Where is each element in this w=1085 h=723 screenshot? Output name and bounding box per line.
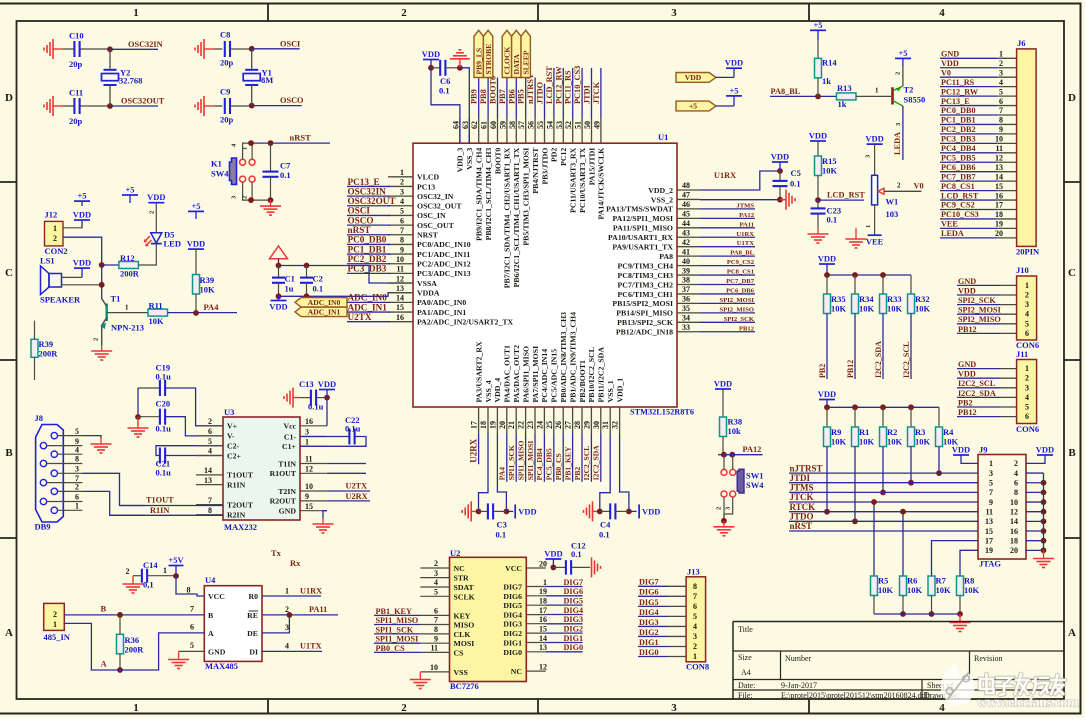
- svg-text:6: 6: [999, 97, 1003, 106]
- svg-text:C3: C3: [497, 520, 507, 530]
- wire DB9 pin3 to MAX232: [82, 473, 145, 505]
- svg-text:VDD: VDD: [725, 58, 743, 68]
- U3 pin 5 C2-: [196, 445, 223, 447]
- svg-text:DE: DE: [247, 629, 258, 638]
- svg-text:PB10/I2C2_SCL: PB10/I2C2_SCL: [587, 347, 596, 402]
- J13 pin 1 DIG0: [638, 656, 668, 658]
- wire R13 to T2 base: [856, 95, 891, 97]
- svg-text:I2C2_SDA: I2C2_SDA: [874, 341, 883, 378]
- wire to pin 63: [460, 68, 469, 143]
- svg-text:SPI2_MOSI: SPI2_MOSI: [958, 306, 1001, 315]
- wires ADC ports to pins 14 15: [347, 301, 390, 303]
- DB9 pin 9: [40, 442, 46, 448]
- svg-text:11: 11: [305, 455, 313, 464]
- J6 pin 18 PC10_CS3: [940, 218, 998, 220]
- svg-text:C1+: C1+: [282, 442, 297, 451]
- svg-text:A: A: [208, 629, 214, 638]
- svg-text:VDD: VDD: [147, 192, 165, 202]
- svg-text:C10: C10: [69, 31, 84, 41]
- svg-text:DIG1: DIG1: [503, 639, 522, 648]
- U2 pin 19 DIG6: [526, 595, 546, 597]
- svg-text:LEDA: LEDA: [893, 132, 902, 155]
- zone tick marks: [267, 4, 269, 22]
- speaker wires: [62, 276, 83, 278]
- svg-text:3: 3: [400, 187, 404, 196]
- svg-text:OSC32_OUT: OSC32_OUT: [417, 202, 462, 211]
- svg-text:DIG7: DIG7: [639, 578, 659, 587]
- svg-text:11: 11: [985, 508, 993, 517]
- svg-text:VDD: VDD: [544, 549, 562, 559]
- svg-text:57: 57: [517, 121, 526, 129]
- svg-text:DIG0: DIG0: [503, 648, 522, 657]
- svg-text:6: 6: [75, 493, 79, 502]
- svg-text:D: D: [1068, 92, 1076, 104]
- svg-text:42: 42: [682, 238, 690, 247]
- svg-text:DIG2: DIG2: [639, 628, 659, 637]
- svg-text:23: 23: [526, 421, 535, 429]
- svg-text:VSS_3: VSS_3: [465, 148, 474, 170]
- power VDD left of J9: [953, 454, 969, 456]
- svg-text:JTCK: JTCK: [592, 81, 601, 104]
- resistor R9 10K: [826, 407, 828, 427]
- svg-text:PC12_RW: PC12_RW: [554, 66, 563, 104]
- svg-text:VSSA: VSSA: [417, 279, 437, 288]
- svg-text:PA13/TMS/SWDAT: PA13/TMS/SWDAT: [606, 205, 674, 214]
- svg-text:PB9/I2C1_SDA/TIM4_CH4: PB9/I2C1_SDA/TIM4_CH4: [475, 148, 484, 241]
- capacitor C9: [224, 98, 226, 114]
- svg-text:CON8: CON8: [686, 662, 709, 672]
- svg-text:20PIN: 20PIN: [1016, 247, 1040, 257]
- J11 pin 6 PB12: [957, 416, 1000, 418]
- svg-text:PC10/USART3_TX: PC10/USART3_TX: [578, 147, 587, 213]
- net nRST wire: [251, 142, 330, 144]
- svg-text:2: 2: [693, 642, 697, 651]
- svg-text:A: A: [5, 627, 13, 639]
- svg-text:6: 6: [434, 607, 438, 616]
- svg-text:4: 4: [285, 642, 289, 651]
- svg-text:R1: R1: [859, 427, 869, 437]
- svg-text:STM32L152R8T6: STM32L152R8T6: [630, 408, 694, 417]
- svg-text:61: 61: [480, 121, 489, 129]
- DB9 pin 1: [51, 507, 57, 513]
- svg-text:2: 2: [53, 610, 57, 619]
- wire J12 pin2 down to transistor: [63, 237, 102, 299]
- svg-text:PC9_CS2: PC9_CS2: [941, 201, 975, 210]
- svg-text:15: 15: [985, 527, 993, 536]
- svg-text:45: 45: [682, 210, 690, 219]
- svg-text:VDD: VDD: [73, 210, 91, 220]
- J10 pin 2 VDD: [957, 294, 1000, 296]
- svg-text:+5: +5: [898, 48, 907, 58]
- svg-text:ADC_IN0: ADC_IN0: [348, 293, 388, 303]
- svg-text:RTCK: RTCK: [790, 502, 816, 512]
- svg-text:CLK: CLK: [454, 630, 471, 639]
- power VDD at J12: [74, 219, 90, 221]
- svg-text:3: 3: [285, 623, 289, 632]
- svg-text:+5: +5: [125, 185, 134, 195]
- U3 pin 7 T2OUT: [196, 504, 223, 506]
- svg-text:20: 20: [1010, 546, 1018, 555]
- svg-text:PA8_BL: PA8_BL: [730, 250, 754, 257]
- svg-text:R2IN: R2IN: [227, 511, 246, 520]
- pin4 wire: [165, 455, 223, 457]
- power VDD above LED: [148, 202, 164, 204]
- svg-text:14: 14: [539, 634, 547, 643]
- top bus wire: [279, 266, 412, 284]
- svg-text:R6: R6: [907, 576, 917, 586]
- op-amp U1 body STM32L152R8T6: [413, 143, 677, 407]
- J11 pin 4 I2C2_SDA: [957, 396, 1000, 398]
- svg-text:R9: R9: [831, 427, 841, 437]
- switch K1 SW4: [230, 158, 237, 185]
- svg-text:C14: C14: [143, 560, 158, 570]
- svg-text:0.1: 0.1: [827, 215, 838, 225]
- port ADC_IN1: [295, 307, 347, 316]
- J6 pin 11 PC4_DB4: [940, 152, 998, 154]
- J11 pin 5 PB2: [957, 406, 1000, 408]
- DB9 pin 2: [51, 488, 57, 494]
- svg-text:7: 7: [999, 106, 1003, 115]
- svg-text:10K: 10K: [887, 437, 903, 447]
- svg-text:R15: R15: [822, 156, 837, 166]
- wire: [63, 105, 74, 107]
- svg-text:2: 2: [1025, 374, 1029, 383]
- svg-text:0.1: 0.1: [599, 530, 610, 540]
- potentiometer W1 103: [872, 175, 878, 205]
- power VDD above R38: [715, 388, 731, 390]
- svg-text:PC4_DB4: PC4_DB4: [941, 144, 976, 153]
- svg-text:JTMS: JTMS: [736, 202, 754, 209]
- svg-text:37: 37: [682, 285, 690, 294]
- svg-text:DB9: DB9: [35, 522, 51, 532]
- svg-text:12: 12: [1010, 508, 1018, 517]
- svg-text:9-Jan-2017: 9-Jan-2017: [781, 681, 817, 690]
- svg-text:10k: 10k: [728, 426, 742, 436]
- U2 pin 7 MISO: [420, 624, 449, 626]
- VDD C12 at U2 VCC: [551, 565, 557, 571]
- svg-text:46: 46: [682, 200, 690, 209]
- svg-text:C13: C13: [299, 379, 314, 389]
- svg-text:1: 1: [400, 168, 404, 177]
- capacitor C12 0.1: [553, 566, 566, 568]
- power VDD above R9 group: [819, 399, 835, 401]
- svg-text:SW4: SW4: [211, 169, 229, 179]
- ground at U3 GND: [323, 511, 327, 518]
- svg-text:PC13_E: PC13_E: [348, 177, 380, 187]
- svg-text:VCC: VCC: [208, 592, 225, 601]
- node OSC32IN: [107, 46, 113, 52]
- svg-text:PA3/USART2_RX: PA3/USART2_RX: [474, 341, 483, 402]
- ground below J9: [1043, 550, 1045, 554]
- ground left of C13: [292, 388, 294, 408]
- svg-text:VDD: VDD: [865, 134, 883, 144]
- svg-text:PB7/I2C1_SDA/TIM4_CH2/USART1_R: PB7/I2C1_SDA/TIM4_CH2/USART1_RX: [503, 147, 512, 288]
- svg-text:6: 6: [1025, 412, 1029, 421]
- wires switch bottom: [243, 182, 271, 200]
- svg-text:R1IN: R1IN: [227, 480, 246, 489]
- svg-text:PB7: PB7: [498, 89, 507, 104]
- svg-text:20p: 20p: [69, 116, 83, 126]
- svg-text:485_IN: 485_IN: [44, 632, 71, 642]
- svg-text:V-: V-: [227, 432, 235, 441]
- svg-text:26: 26: [554, 421, 563, 429]
- ground right of C12: [591, 557, 593, 577]
- svg-text:PB0/ADC_IN8/TIM3_CH3: PB0/ADC_IN8/TIM3_CH3: [559, 312, 568, 403]
- U2 pin 2 NC: [420, 567, 449, 569]
- svg-text:1: 1: [133, 7, 139, 19]
- svg-text:15: 15: [305, 502, 313, 511]
- svg-text:PA8: PA8: [659, 252, 673, 261]
- wire W1 bottom to VEE: [874, 205, 876, 235]
- svg-text:PC3_DB3: PC3_DB3: [348, 264, 387, 274]
- svg-text:DIG5: DIG5: [639, 598, 659, 607]
- svg-text:12: 12: [995, 153, 1003, 162]
- svg-text:JTAG: JTAG: [979, 559, 1001, 569]
- svg-text:19: 19: [539, 587, 547, 596]
- svg-text:PB12/ADC_IN18: PB12/ADC_IN18: [616, 328, 673, 337]
- svg-text:14: 14: [1010, 517, 1018, 526]
- svg-text:C1-: C1-: [284, 432, 297, 441]
- svg-text:29: 29: [582, 421, 591, 429]
- node OSCI: [249, 46, 255, 52]
- J6 pin 1 GND: [940, 57, 998, 59]
- svg-text:PC7/TIM3_CH2: PC7/TIM3_CH2: [618, 280, 674, 289]
- svg-text:R39: R39: [200, 275, 215, 285]
- svg-text:2: 2: [999, 59, 1003, 68]
- svg-text:200R: 200R: [125, 645, 145, 655]
- svg-text:55: 55: [536, 121, 545, 129]
- svg-text:17: 17: [470, 421, 479, 429]
- U3 pin 10 T2IN: [300, 490, 327, 492]
- svg-text:C7: C7: [280, 161, 291, 171]
- wire: [215, 48, 223, 50]
- svg-text:SPI2_MISO: SPI2_MISO: [720, 306, 754, 313]
- svg-text:SDAT: SDAT: [454, 583, 475, 592]
- svg-text:R1IN: R1IN: [150, 506, 169, 515]
- svg-text:19: 19: [995, 220, 1003, 229]
- J13 pin 2 DIG1: [638, 645, 668, 647]
- J6 pin 20 LEDA: [940, 237, 998, 239]
- svg-text:SPI1_SCK: SPI1_SCK: [376, 625, 414, 634]
- svg-text:10K: 10K: [822, 166, 838, 176]
- svg-text:NPN-213: NPN-213: [111, 323, 144, 333]
- capacitor C10: [73, 41, 75, 57]
- svg-text:OSCO: OSCO: [280, 96, 304, 105]
- svg-text:16: 16: [995, 191, 1003, 200]
- svg-text:VDD_2: VDD_2: [648, 186, 673, 195]
- U2 pin 6 KEY: [420, 614, 449, 616]
- floating ground: [855, 228, 857, 233]
- svg-text:PC2_DB2: PC2_DB2: [941, 125, 976, 134]
- svg-text:nRST: nRST: [790, 521, 813, 531]
- svg-text:www.elecfans.com: www.elecfans.com: [977, 696, 1079, 711]
- VDD C13 at U3 Vcc: [326, 398, 328, 426]
- resistor R13 1k: [837, 93, 857, 100]
- svg-text:DIG0: DIG0: [639, 648, 659, 657]
- svg-text:16: 16: [396, 313, 404, 322]
- bottom bus and ground: [874, 613, 960, 615]
- svg-text:1: 1: [999, 50, 1003, 59]
- svg-text:10: 10: [995, 135, 1003, 144]
- svg-text:C20: C20: [156, 399, 171, 409]
- svg-text:6: 6: [1025, 329, 1029, 338]
- svg-text:1: 1: [865, 225, 872, 228]
- svg-text:1: 1: [1025, 364, 1029, 373]
- svg-text:Vcc: Vcc: [283, 422, 296, 431]
- svg-text:S8550: S8550: [904, 95, 926, 105]
- J10 pin 4 SPI2_MOSI: [957, 313, 1000, 315]
- svg-text:VCC: VCC: [505, 564, 522, 573]
- svg-text:SPEAKER: SPEAKER: [40, 295, 81, 305]
- port PB9_LS: [474, 30, 483, 77]
- svg-text:VDD_1: VDD_1: [615, 378, 624, 403]
- svg-text:U1TX: U1TX: [300, 642, 322, 651]
- svg-text:R38: R38: [728, 417, 743, 427]
- svg-text:10K: 10K: [907, 585, 923, 595]
- svg-text:+5: +5: [729, 85, 738, 95]
- svg-text:PB6/I2C1_SCL/TIM4_CH1/USART1_T: PB6/I2C1_SCL/TIM4_CH1/USART1_TX: [512, 147, 521, 287]
- svg-text:SW1: SW1: [746, 471, 763, 481]
- wire J12 pin1 to VDD: [63, 220, 82, 228]
- pin5 wire and capacitor C21: [156, 446, 223, 456]
- svg-text:7: 7: [75, 474, 79, 483]
- svg-text:NC: NC: [454, 564, 466, 573]
- J13 pin 5 DIG4: [638, 615, 668, 617]
- U3 pin 11 T1IN: [300, 463, 327, 465]
- wire R11 to PA4 node: [168, 312, 238, 314]
- U1 top wires and rotated labels: [478, 78, 480, 119]
- svg-text:PC10_CS3: PC10_CS3: [941, 210, 979, 219]
- svg-text:DIG4: DIG4: [503, 611, 522, 620]
- power VDD above W1: [867, 143, 883, 145]
- port DATA: [512, 30, 521, 77]
- svg-text:2: 2: [149, 211, 156, 214]
- svg-text:3: 3: [693, 632, 697, 641]
- svg-text:10K: 10K: [859, 437, 875, 447]
- svg-text:R35: R35: [831, 294, 846, 304]
- svg-text:VDD: VDD: [269, 302, 287, 312]
- svg-text:2: 2: [1014, 459, 1018, 468]
- svg-text:PC11/USART3_RX: PC11/USART3_RX: [569, 147, 578, 213]
- svg-text:3: 3: [434, 569, 438, 578]
- svg-text:GND: GND: [941, 50, 959, 59]
- svg-text:32.768: 32.768: [119, 76, 142, 86]
- U1 left side net label wires: [347, 185, 390, 187]
- svg-text:PC7_DB7: PC7_DB7: [726, 278, 755, 285]
- svg-text:PB0_CS: PB0_CS: [554, 453, 563, 480]
- svg-text:PA12: PA12: [739, 212, 755, 219]
- U2 pin 4 SDAT: [420, 586, 449, 588]
- svg-text:R2OUT: R2OUT: [270, 497, 297, 506]
- svg-text:0.1u: 0.1u: [156, 372, 172, 382]
- svg-text:OSCI: OSCI: [280, 40, 300, 49]
- svg-text:B: B: [208, 611, 213, 620]
- svg-text:43: 43: [682, 228, 690, 237]
- U2 pin 1 DIG7: [526, 586, 546, 588]
- svg-text:SLEEP: SLEEP: [521, 50, 530, 74]
- svg-text:9: 9: [400, 245, 404, 254]
- JTAG left net wires: [789, 472, 978, 474]
- capacitor C1 1u: [278, 266, 280, 278]
- svg-text:50: 50: [583, 121, 592, 129]
- net A wire: [64, 623, 120, 670]
- svg-text:U3: U3: [224, 407, 234, 417]
- svg-text:PC11_RS: PC11_RS: [941, 78, 975, 87]
- svg-text:PC12_RW: PC12_RW: [941, 87, 979, 96]
- svg-text:PA11/SPI1_MISO: PA11/SPI1_MISO: [613, 224, 673, 233]
- J6 pin 14 PC7_DB7: [940, 180, 998, 182]
- svg-text:SPI1_MOSI: SPI1_MOSI: [526, 441, 535, 481]
- ground below C14 pin2: [132, 576, 134, 580]
- svg-text:13: 13: [985, 517, 993, 526]
- svg-text:C: C: [5, 267, 13, 279]
- svg-text:200R: 200R: [39, 349, 59, 359]
- svg-text:nJTRST: nJTRST: [790, 463, 823, 473]
- svg-text:VSS_2: VSS_2: [651, 195, 673, 204]
- svg-text:PA14/JTCK/SWCLK: PA14/JTCK/SWCLK: [597, 148, 606, 220]
- svg-text:VDD: VDD: [952, 445, 970, 455]
- net PA8_BL: [770, 95, 837, 97]
- svg-text:PB12: PB12: [846, 360, 855, 378]
- svg-text:C: C: [1068, 267, 1076, 279]
- svg-text:R4: R4: [943, 427, 954, 437]
- ground for C11: [52, 96, 54, 116]
- svg-text:PC3_DB3: PC3_DB3: [941, 135, 976, 144]
- svg-text:DIG1: DIG1: [564, 634, 584, 643]
- svg-text:LEDA: LEDA: [941, 229, 964, 238]
- resistor R33 10K: [882, 275, 884, 294]
- svg-text:PA10/USART1_RX: PA10/USART1_RX: [608, 233, 673, 242]
- svg-text:GND: GND: [208, 648, 226, 657]
- svg-text:DIG0: DIG0: [564, 643, 584, 652]
- svg-text:PC12: PC12: [559, 148, 568, 166]
- J10 pin 6 PB12: [957, 332, 1000, 334]
- J10 pin 1 GND: [957, 284, 1000, 286]
- U2 pin 11 CS: [420, 651, 449, 653]
- svg-text:PB2: PB2: [958, 398, 973, 407]
- svg-text:8: 8: [75, 455, 79, 464]
- svg-text:8: 8: [999, 116, 1003, 125]
- svg-text:C2-: C2-: [227, 442, 240, 451]
- svg-text:2: 2: [53, 234, 57, 243]
- J6 pin 5 PC12_RW: [940, 95, 998, 97]
- svg-text:3: 3: [305, 428, 309, 437]
- capacitor C7: [268, 140, 274, 146]
- power +5 symbol: [726, 95, 742, 97]
- svg-text:MISO: MISO: [454, 621, 475, 630]
- svg-text:20: 20: [539, 559, 547, 568]
- U1 right pin stubs and numbers: [677, 189, 700, 191]
- svg-text:DIG6: DIG6: [564, 587, 584, 596]
- svg-text:A: A: [101, 659, 108, 669]
- capacitor C8: [224, 41, 226, 57]
- svg-text:PA4: PA4: [498, 467, 507, 481]
- svg-text:T2OUT: T2OUT: [227, 500, 254, 509]
- svg-text:PA8_BL: PA8_BL: [771, 87, 801, 96]
- svg-text:33: 33: [682, 323, 690, 332]
- svg-text:40: 40: [682, 257, 690, 266]
- power arrow: [270, 246, 288, 259]
- wires switch to nRST node: [243, 143, 251, 159]
- svg-text:SPI1_MISO: SPI1_MISO: [376, 616, 419, 625]
- ground below C23: [817, 228, 819, 234]
- svg-text:C2: C2: [313, 274, 323, 284]
- svg-text:PC11_RS: PC11_RS: [564, 70, 573, 104]
- svg-text:PC3/ADC_IN13: PC3/ADC_IN13: [417, 269, 471, 278]
- svg-text:5: 5: [75, 427, 79, 436]
- svg-text:10K: 10K: [149, 316, 165, 326]
- svg-text:200R: 200R: [120, 269, 140, 279]
